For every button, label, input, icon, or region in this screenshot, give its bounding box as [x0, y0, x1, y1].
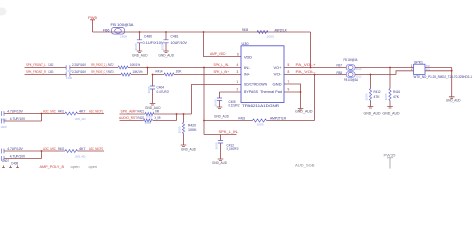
- ferrite bead FB8: [337, 71, 363, 82]
- resistor R414: [156, 69, 183, 76]
- svg-text:GND_AUD: GND_AUD: [446, 99, 461, 103]
- wire SPK_FRONT_R line: [25, 68, 148, 75]
- svg-text:1005_400: 1005_400: [75, 156, 87, 159]
- wire VO- line: [284, 71, 414, 75]
- svg-text:A3C_MIC_: A3C_MIC_: [43, 110, 58, 114]
- ground GND_AUD (C404): [145, 104, 161, 110]
- svg-text:1608: 1608: [162, 43, 165, 51]
- svg-text:FB8: FB8: [337, 71, 343, 75]
- svg-text:0.22UF/2: 0.22UF/2: [229, 104, 240, 108]
- resistor R416: [389, 68, 400, 107]
- svg-text:C408: C408: [11, 161, 18, 165]
- svg-text:AUD_SGB: AUD_SGB: [295, 163, 315, 167]
- svg-text:SPK_L_IN-: SPK_L_IN-: [214, 63, 230, 67]
- wire IN+ line: [153, 74, 242, 76]
- resistor R473: [108, 70, 143, 76]
- wire mic2 lower: [4, 151, 41, 159]
- wire AUDIO_RST line: [120, 114, 177, 121]
- svg-text:R412: R412: [374, 90, 381, 94]
- svg-text:100K: 100K: [188, 128, 197, 132]
- ferrite bead FB6: [103, 23, 135, 38]
- node junction R418 tap: [203, 120, 205, 122]
- wire SPK_FRONT_L line: [25, 67, 242, 69]
- wire mic1 out: [42, 113, 105, 115]
- svg-text:10K/1%: 10K/1%: [130, 63, 140, 67]
- wire mic1 lower: [4, 114, 41, 122]
- svg-text:5: 5: [288, 63, 290, 67]
- svg-text:9: 9: [288, 88, 290, 92]
- svg-text:SPK_AMP: SPK_AMP: [121, 110, 138, 114]
- svg-text:R401: R401: [58, 110, 64, 114]
- svg-text:1005: 1005: [366, 93, 369, 101]
- resistor R422: [138, 116, 161, 125]
- node junction R412 tap: [370, 74, 372, 76]
- svg-text:GND_AUD: GND_AUD: [364, 112, 382, 116]
- smudge top-left: [0, 8, 7, 16]
- svg-text:GND_AUD: GND_AUD: [383, 112, 401, 116]
- wire feedback vertical IN-: [203, 68, 205, 135]
- svg-text:47K: 47K: [393, 95, 400, 99]
- node junction mix: [147, 67, 149, 69]
- svg-text:GND_AUD: GND_AUD: [132, 53, 148, 57]
- connector SPK1: [411, 61, 472, 97]
- svg-text:AMP2TILR: AMP2TILR: [275, 28, 287, 32]
- capacitor mic2 lower edge: [2, 156, 5, 161]
- svg-text:FB 100@3A: FB 100@3A: [111, 23, 135, 27]
- power flag PW5: [88, 16, 97, 32]
- resistor R401: [58, 110, 86, 122]
- svg-text:0R: 0R: [155, 110, 160, 114]
- svg-text:1005: 1005: [257, 123, 265, 126]
- svg-text:SPK_L_IN-: SPK_L_IN-: [219, 130, 240, 134]
- svg-text:7: 7: [288, 80, 290, 84]
- svg-text:2.2UF/16V: 2.2UF/16V: [72, 70, 87, 74]
- svg-text:2012: 2012: [356, 68, 363, 71]
- ground GND_AUD (R412): [364, 107, 382, 116]
- node junction pin9: [300, 91, 302, 93]
- svg-text:SPK_FRONT_C_R: SPK_FRONT_C_R: [91, 70, 108, 74]
- svg-text:IN-: IN-: [244, 66, 250, 70]
- svg-text:R418: R418: [239, 116, 246, 120]
- wire SPK_AMP line: [120, 113, 192, 115]
- svg-text:GND_AUD: GND_AUD: [212, 161, 228, 165]
- svg-text:4.7UF/10V: 4.7UF/10V: [10, 155, 26, 159]
- svg-text:2.2UF/16V: 2.2UF/16V: [72, 63, 87, 67]
- svg-text:PA_VOL+: PA_VOL+: [296, 63, 316, 67]
- svg-text:R414: R414: [156, 69, 163, 73]
- svg-text:VDD: VDD: [244, 55, 253, 59]
- wire mic2 out: [42, 150, 105, 152]
- svg-text:A3C_MICP2: A3C_MICP2: [89, 147, 103, 151]
- capacitor mic1 upper edge: [2, 111, 5, 116]
- resistor R472: [108, 63, 140, 69]
- svg-text:1005: 1005: [145, 122, 152, 125]
- node junction ctrl mix: [176, 113, 178, 115]
- capacitor C480: [137, 32, 165, 51]
- svg-text:10K/1%: 10K/1%: [133, 70, 143, 74]
- node junction rail-C480: [139, 31, 141, 33]
- svg-text:AMP2TILR: AMP2TILR: [270, 116, 287, 120]
- wire R418 line: [204, 75, 315, 121]
- node junction rail-C481: [165, 31, 167, 33]
- svg-text:X_0R: X_0R: [155, 116, 161, 120]
- capacitor mic1 lower edge: [2, 119, 5, 124]
- svg-text:TPA6211A1DGNR: TPA6211A1DGNR: [242, 104, 280, 108]
- svg-text:AUDIO_RST: AUDIO_RST: [119, 116, 138, 120]
- svg-text:Thermal Pad: Thermal Pad: [260, 90, 282, 94]
- ground marks mic2: [2, 166, 19, 168]
- svg-text:GND_AUD: GND_AUD: [295, 109, 313, 113]
- wire VO+ line: [284, 67, 414, 69]
- svg-text:open: open: [89, 165, 98, 169]
- svg-text:1005: 1005: [385, 93, 388, 101]
- svg-text:open: open: [71, 165, 80, 169]
- svg-text:1608: 1608: [66, 77, 73, 80]
- svg-text:A3C_MIC_: A3C_MIC_: [43, 147, 58, 151]
- svg-text:4: 4: [237, 63, 239, 67]
- svg-text:1: 1: [237, 80, 239, 84]
- svg-text:SD/CTRDOWN: SD/CTRDOWN: [244, 83, 268, 87]
- svg-text:2012: 2012: [356, 75, 363, 78]
- svg-text:FB6: FB6: [103, 29, 110, 33]
- svg-text:R420: R420: [188, 123, 196, 127]
- svg-text:4K7: 4K7: [79, 147, 86, 151]
- resistor R402: [58, 147, 86, 159]
- svg-text:PW5: PW5: [88, 16, 97, 20]
- ground GND_AUD (R416): [383, 107, 401, 116]
- svg-text:VO-: VO-: [274, 73, 282, 77]
- wire VDD drop to pin 6: [204, 32, 242, 57]
- svg-text:GND_AUD: GND_AUD: [214, 114, 230, 118]
- svg-text:8: 8: [288, 70, 290, 74]
- svg-text:4.7UF/10V: 4.7UF/10V: [10, 117, 26, 121]
- node junction R420 tap: [183, 113, 185, 115]
- svg-text:47K: 47K: [374, 95, 381, 99]
- ground GND_AUD (R420): [181, 145, 197, 152]
- svg-text:R473: R473: [108, 70, 114, 74]
- wire mic2 upper: [4, 150, 41, 152]
- node junction C404 tap: [152, 74, 154, 76]
- svg-text:R408: R408: [242, 28, 248, 32]
- svg-text:10K: 10K: [176, 69, 183, 73]
- svg-text:4.7UF/10V: 4.7UF/10V: [7, 147, 23, 151]
- svg-text:X_1000PF/2: X_1000PF/2: [227, 147, 239, 151]
- svg-text:1005_400: 1005_400: [75, 118, 87, 121]
- svg-text:FB 100@3A: FB 100@3A: [344, 78, 359, 82]
- capacitor C481: [163, 32, 188, 51]
- svg-text:R421: R421: [138, 110, 145, 114]
- svg-text:AMP_VDD: AMP_VDD: [210, 52, 226, 56]
- power flag PW35: [384, 154, 396, 169]
- resistor R421: [138, 110, 160, 119]
- svg-text:1005: 1005: [267, 35, 275, 38]
- svg-text:C407: C407: [2, 159, 9, 163]
- wire main VDD rail: [93, 31, 311, 33]
- svg-text:WTE_NO_P1.25_SMD2_T10-70-325HD: WTE_NO_P1.25_SMD2_T10-70-325HD3-1: [414, 75, 473, 79]
- svg-text:0.47UF/2: 0.47UF/2: [157, 90, 170, 94]
- svg-text:1608: 1608: [215, 99, 218, 107]
- svg-text:R402: R402: [58, 147, 64, 151]
- ground GND_AUD (C405): [214, 107, 230, 118]
- svg-text:C404: C404: [157, 85, 165, 89]
- ground GND_AUD (C480): [132, 51, 148, 57]
- capacitor C412: [218, 135, 239, 160]
- svg-text:1608: 1608: [120, 36, 128, 39]
- resistor R420: [182, 114, 197, 145]
- wire BYPASS line: [220, 91, 242, 93]
- svg-text:2: 2: [411, 67, 413, 71]
- wire SD line: [192, 85, 242, 115]
- svg-text:R416: R416: [393, 90, 400, 94]
- wire filter line: [204, 134, 237, 136]
- svg-text:1608: 1608: [216, 142, 219, 150]
- svg-text:SPK_FRONT_C_L: SPK_FRONT_C_L: [91, 63, 108, 67]
- capacitor mic2 upper edge: [2, 149, 5, 154]
- node junction IN- tap: [203, 67, 205, 69]
- svg-text:GND_AUD: GND_AUD: [159, 53, 175, 57]
- ferrite bead FB7: [337, 58, 363, 71]
- svg-text:R472: R472: [108, 63, 114, 67]
- svg-text:2: 2: [237, 88, 239, 92]
- capacitor C405: [217, 92, 240, 108]
- ground GND_AUD (SPK1): [446, 97, 461, 103]
- svg-text:SPK_L_IN+: SPK_L_IN+: [214, 70, 230, 74]
- svg-text:SPK_FRONT_L: SPK_FRONT_L: [26, 63, 46, 67]
- svg-text:FB7: FB7: [337, 64, 343, 68]
- capacitor C402: [48, 63, 86, 73]
- svg-text:C403: C403: [48, 70, 53, 74]
- resistor R418: [239, 116, 287, 126]
- svg-text:C480: C480: [144, 35, 152, 39]
- svg-text:1608: 1608: [1, 126, 8, 129]
- ground GND_AUD (C412): [212, 159, 228, 165]
- svg-text:GND_AUD: GND_AUD: [181, 148, 197, 152]
- svg-text:FB 100@3A: FB 100@3A: [344, 58, 359, 62]
- svg-text:10UF/10V: 10UF/10V: [171, 41, 188, 45]
- node junction VO+ R408: [310, 67, 312, 69]
- wire mic1 upper: [4, 113, 41, 115]
- svg-text:PW35: PW35: [384, 154, 396, 158]
- op-amp U30 TPA6211: [241, 42, 284, 108]
- svg-text:1608: 1608: [148, 86, 151, 94]
- node junction VO- R418: [314, 74, 316, 76]
- capacitor C404: [150, 75, 169, 104]
- wire GND pins 7 9: [284, 84, 301, 109]
- capacitor C403: [48, 70, 86, 80]
- node junction R416 tap: [389, 67, 391, 69]
- svg-text:PA_VOL-: PA_VOL-: [296, 70, 317, 74]
- svg-text:6: 6: [237, 52, 239, 56]
- node junction mic1: [41, 113, 43, 115]
- svg-text:1005: 1005: [146, 116, 153, 119]
- svg-text:4K7: 4K7: [79, 110, 86, 114]
- svg-text:AMP_POLY_B: AMP_POLY_B: [40, 165, 65, 169]
- svg-text:SPK_FRONT_R: SPK_FRONT_R: [26, 70, 46, 74]
- svg-text:A3C_MICP1: A3C_MICP1: [89, 110, 103, 114]
- svg-text:3: 3: [237, 70, 239, 74]
- ground GND_AUD (C481): [159, 51, 175, 57]
- svg-text:4.7UF/10V: 4.7UF/10V: [7, 110, 23, 114]
- svg-text:1005: 1005: [179, 126, 182, 134]
- resistor R408: [242, 28, 287, 38]
- svg-text:BYPASS: BYPASS: [244, 90, 259, 94]
- svg-text:R422: R422: [138, 116, 145, 120]
- svg-text:GND: GND: [273, 83, 283, 87]
- node junction mic2: [41, 150, 43, 152]
- svg-text:C402: C402: [48, 63, 53, 67]
- ground GND_AUD (U30): [295, 109, 313, 114]
- wire R408 to VO+: [310, 32, 312, 68]
- resistor R412: [369, 75, 380, 107]
- svg-text:C481: C481: [171, 35, 179, 39]
- svg-text:VO+: VO+: [274, 66, 282, 70]
- svg-text:IN+: IN+: [244, 73, 250, 77]
- svg-text:1608: 1608: [135, 43, 138, 51]
- node junction rail-VDD drop: [203, 31, 205, 33]
